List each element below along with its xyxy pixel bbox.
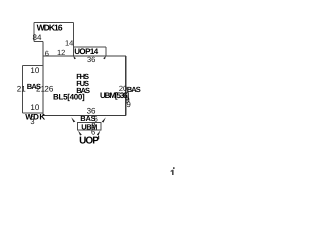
arrow right under ubm box — [97, 130, 101, 135]
main right edge — [125, 56, 127, 116]
bas top edge — [23, 64, 43, 66]
svg-text:3: 3 — [30, 117, 34, 126]
svg-text:36: 36 — [87, 55, 95, 64]
svg-text:10: 10 — [30, 66, 39, 75]
arrow left under ubm box — [78, 130, 82, 135]
uop right edge — [105, 47, 107, 56]
arrow left under main bottom — [71, 117, 75, 122]
tiny scale mark — [170, 167, 175, 175]
svg-text:BAS: BAS — [127, 85, 141, 94]
wdk right edge / uop left edge — [72, 23, 74, 57]
svg-text:WDK: WDK — [25, 112, 45, 121]
main building outline — [43, 42, 126, 116]
svg-text:21: 21 — [17, 84, 26, 93]
tick after UOP — [98, 136, 99, 139]
svg-text:12: 12 — [57, 48, 65, 57]
svg-text:BL5[400]: BL5[400] — [53, 92, 85, 101]
svg-text:84: 84 — [33, 33, 42, 42]
arrow left of uop width — [73, 56, 76, 59]
arrow right of uop width — [103, 56, 106, 59]
wdk left edge — [33, 23, 35, 42]
UOP porch box — [73, 47, 106, 56]
bottom UBM box — [78, 123, 101, 131]
svg-text:6: 6 — [45, 49, 49, 58]
main left edge — [42, 42, 44, 116]
dimension arrows at UOP corners — [71, 56, 106, 136]
svg-text:UOP: UOP — [79, 135, 99, 146]
wdk top edge — [34, 22, 74, 24]
svg-text:9: 9 — [126, 100, 131, 109]
WDK deck outline top-left — [34, 23, 74, 57]
left BAS box — [23, 65, 44, 112]
wdk bottom step — [34, 41, 43, 43]
bas bottom edge — [23, 112, 44, 114]
uop top edge — [73, 46, 106, 48]
main bottom edge — [43, 115, 126, 117]
main top edge — [43, 55, 126, 57]
svg-text:WDK16: WDK16 — [37, 22, 63, 32]
svg-text:14: 14 — [65, 39, 73, 48]
svg-text:10: 10 — [30, 103, 39, 112]
bas left edge — [22, 65, 24, 112]
arrow right under main bottom — [102, 117, 106, 122]
